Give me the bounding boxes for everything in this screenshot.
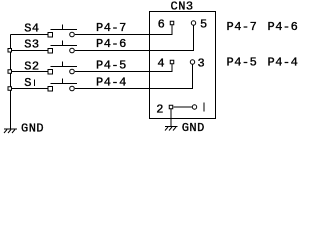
svg-text:GND: GND <box>182 121 205 135</box>
svg-text:2: 2 <box>156 103 164 117</box>
svg-text:S2: S2 <box>24 60 39 74</box>
svg-text:3: 3 <box>198 57 206 71</box>
svg-text:GND: GND <box>21 122 44 136</box>
svg-text:P4-5: P4-5 <box>227 56 258 70</box>
svg-text:P4-5: P4-5 <box>96 59 127 73</box>
svg-text:4: 4 <box>157 57 165 71</box>
svg-text:P4-4: P4-4 <box>268 56 299 70</box>
svg-text:P4-6: P4-6 <box>96 37 127 51</box>
svg-text:CN3: CN3 <box>171 0 194 14</box>
svg-text:P4-7: P4-7 <box>227 20 258 34</box>
svg-text:S4: S4 <box>24 22 39 36</box>
svg-text:P4-4: P4-4 <box>96 76 127 90</box>
svg-text:P4-6: P4-6 <box>268 20 299 34</box>
svg-text:6: 6 <box>158 18 166 32</box>
svg-text:S: S <box>24 76 32 90</box>
svg-text:5: 5 <box>200 18 208 32</box>
svg-text:S3: S3 <box>24 38 39 52</box>
svg-text:P4-7: P4-7 <box>96 21 127 35</box>
